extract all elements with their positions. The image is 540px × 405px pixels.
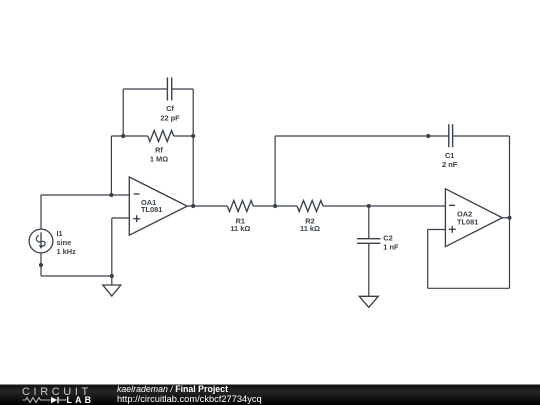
svg-text:C1: C1 — [445, 151, 454, 160]
op-amp OA1 — [129, 177, 187, 235]
current source I1 — [29, 229, 53, 253]
logo diode doodle — [51, 397, 67, 403]
svg-text:Rf: Rf — [155, 146, 163, 155]
capacitor C1 — [449, 124, 453, 147]
wire R1 to R2 — [253, 205, 297, 207]
junction node I1 bottom terminal — [39, 263, 43, 267]
junction node OA1 output — [191, 204, 195, 208]
svg-text:LAB: LAB — [67, 395, 95, 405]
resistor Rf — [148, 131, 174, 142]
wire Rf line left lead — [111, 135, 147, 137]
wire C2 node down to capacitor — [368, 206, 370, 239]
wire I1 top to node A — [40, 195, 42, 229]
wire right vertical output rail — [509, 136, 511, 288]
ground under C2 — [359, 296, 378, 307]
svg-text:http://circuitlab.com/ckbcf277: http://circuitlab.com/ckbcf27734ycq — [117, 394, 262, 404]
capacitor C2 — [357, 239, 381, 244]
wire OA2 feedback left vertical — [427, 230, 429, 289]
wire Cf left vertical — [122, 89, 124, 136]
wire I1 bottom lead down — [40, 253, 42, 276]
wire feedback vertical from inverting input node up to Rf line — [110, 136, 112, 195]
resistor R2 — [297, 201, 323, 212]
logo resistor doodle — [23, 398, 51, 403]
svg-text:11 kΩ: 11 kΩ — [230, 224, 250, 233]
wire R2 to OA2 inverting input — [323, 205, 445, 207]
wire OA2 output stub — [502, 217, 509, 219]
footer bar — [0, 385, 540, 405]
wire Cf top right — [172, 88, 194, 90]
wire Rf right lead — [174, 135, 194, 137]
svg-text:1 MΩ: 1 MΩ — [150, 155, 168, 164]
wire to OA1 non-inverting input — [112, 217, 130, 219]
svg-text:1 nF: 1 nF — [383, 243, 399, 252]
junction node at inverting input — [109, 193, 113, 197]
capacitor Cf — [167, 78, 171, 101]
svg-text:sine: sine — [57, 238, 72, 247]
wire node A horizontal to OA1 inverting input — [41, 194, 129, 196]
wire OA1 output to R1 — [187, 205, 227, 207]
wire to OA2 non-inverting input — [428, 229, 446, 231]
wire OA1 output feedback vertical — [192, 89, 194, 206]
svg-text:22 pF: 22 pF — [160, 114, 180, 123]
junction node R2-C2 — [367, 204, 371, 208]
wire ground stem at OA1 — [111, 276, 113, 285]
resistor R1 — [227, 201, 253, 212]
svg-text:TL081: TL081 — [457, 217, 478, 226]
wire bottom horizontal to ground node — [41, 275, 112, 277]
wire mid node vertical up to top rail — [274, 136, 276, 206]
svg-text:C2: C2 — [383, 234, 392, 243]
junction node R1-R2 tap — [273, 204, 277, 208]
op-amp OA2 — [445, 189, 502, 247]
wire OA2 bottom feedback horizontal — [428, 287, 510, 289]
junction node C1 left terminal — [426, 134, 430, 138]
wire C2 to ground — [368, 243, 370, 296]
svg-text:I1: I1 — [57, 229, 63, 238]
junction node Cf right on Rf line — [191, 134, 195, 138]
junction node Cf left on Rf line — [121, 134, 125, 138]
svg-text:kaelrademan / Final Project: kaelrademan / Final Project — [117, 384, 228, 394]
svg-text:Cf: Cf — [166, 104, 174, 113]
svg-text:11 kΩ: 11 kΩ — [300, 224, 320, 233]
ground at OA1 non-inverting input — [103, 285, 121, 296]
svg-text:TL081: TL081 — [141, 205, 162, 214]
wire top rail to C1 — [275, 135, 449, 137]
wire ground node up to OA1 non-inverting input level — [111, 218, 113, 276]
svg-text:2 nF: 2 nF — [442, 160, 458, 169]
wire C1 right to corner — [453, 135, 510, 137]
svg-text:1 kHz: 1 kHz — [57, 247, 77, 256]
junction node OA2 output — [507, 216, 511, 220]
junction node ground tee — [110, 274, 114, 278]
wire Cf top left — [123, 88, 167, 90]
